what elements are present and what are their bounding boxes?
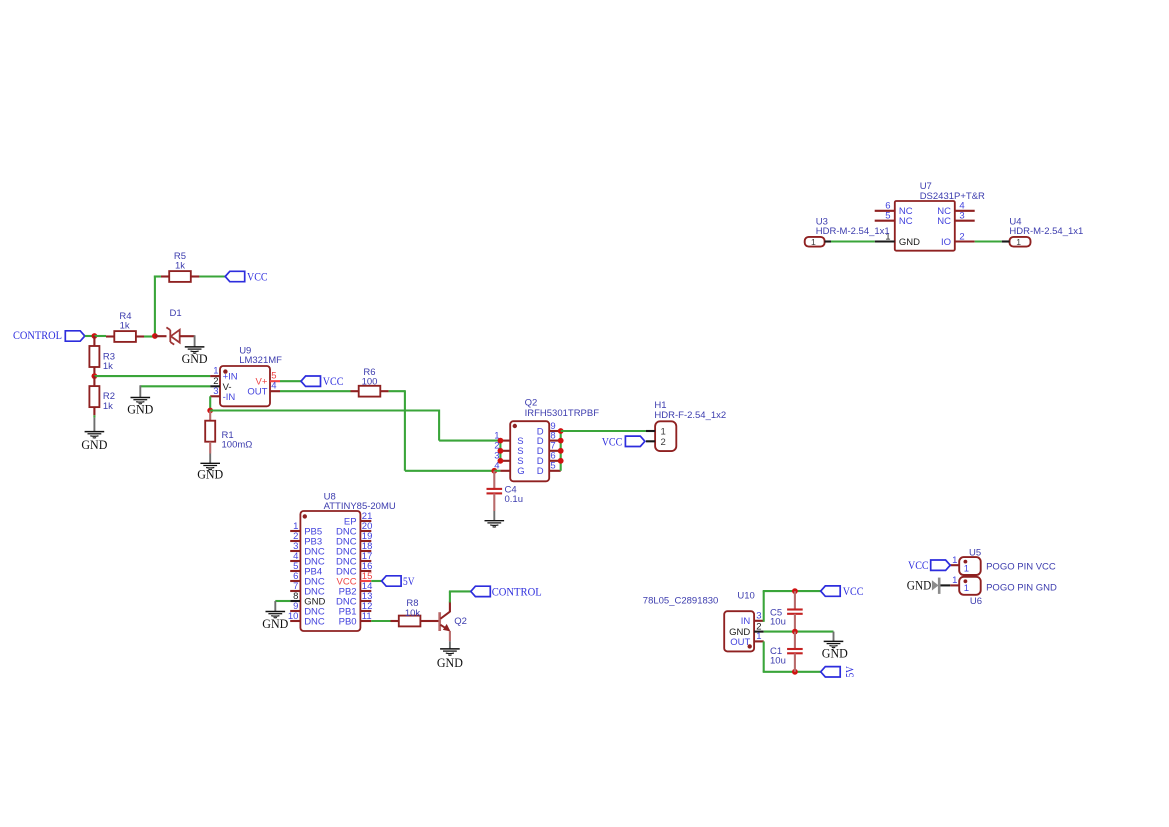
wire R6 to C4 node	[405, 470, 494, 472]
pin 12 stub U8 PB1	[360, 610, 371, 612]
svg-text:78L05_C2891830: 78L05_C2891830	[643, 596, 719, 607]
pin 11 stub U8 PB0	[360, 620, 371, 622]
pin 3 stub U8 DNC	[290, 550, 300, 552]
pin-1 marker U10	[748, 644, 752, 648]
svg-text:HDR-F-2.54_1x2: HDR-F-2.54_1x2	[654, 410, 726, 421]
capacitor C5 top lead	[794, 591, 796, 609]
pin stub R6 right	[380, 390, 388, 392]
junction Q2 S3	[498, 458, 504, 464]
pogo pin U6 body	[959, 577, 981, 595]
power flag VCC (U10)	[821, 586, 841, 596]
svg-text:GND: GND	[81, 438, 107, 452]
pin 20 stub U8 DNC	[360, 530, 371, 532]
svg-text:ATTINY85-20MU: ATTINY85-20MU	[324, 501, 396, 512]
node B junction	[152, 333, 158, 339]
junction GND rail C5	[792, 629, 798, 635]
svg-text:HDR-M-2.54_1x1: HDR-M-2.54_1x1	[816, 226, 890, 237]
node E junction (C4 top)	[491, 468, 497, 474]
pin 19 stub U8 DNC	[360, 540, 371, 542]
svg-text:VCC: VCC	[908, 558, 929, 572]
wire R4 to node B	[144, 335, 155, 337]
wire GND symbol to U6	[941, 584, 951, 586]
wire vertical R5 to node	[154, 276, 156, 337]
power flag VCC top	[225, 271, 245, 281]
ground symbol (R2)	[85, 432, 105, 438]
resistor R3	[89, 346, 99, 367]
svg-text:NC: NC	[937, 216, 951, 227]
svg-text:LM321MF: LM321MF	[239, 355, 282, 366]
wire U9 V+ to VCC flag	[280, 380, 301, 382]
emitter lead Q2	[449, 631, 451, 641]
pin 18 stub U8 DNC	[360, 550, 371, 552]
resistor R6	[359, 386, 381, 397]
wire 5V rail bottom	[763, 671, 821, 673]
pin stub node A to R3	[93, 336, 95, 346]
svg-text:POGO PIN VCC: POGO PIN VCC	[986, 562, 1056, 573]
svg-text:4: 4	[271, 381, 276, 392]
svg-text:1k: 1k	[103, 361, 113, 372]
wire Q2 drain bus vertical	[560, 431, 562, 471]
svg-text:5V: 5V	[403, 574, 415, 588]
pin stub U4	[1002, 240, 1010, 242]
svg-text:Q2: Q2	[454, 616, 467, 627]
wire U10 GND rail	[764, 631, 834, 633]
pin 6 stub U7 NC	[875, 210, 895, 212]
svg-text:U6: U6	[970, 596, 982, 607]
pin 1 stub Q2 S	[500, 440, 510, 442]
ground lead (U10)	[833, 632, 835, 642]
pin 2 stub U9 V-	[210, 385, 220, 387]
capacitor C4	[487, 489, 503, 494]
svg-text:3: 3	[213, 386, 218, 397]
capacitor C4 top lead	[493, 471, 495, 489]
pin 9 stub U8 DNC	[290, 610, 300, 612]
pin stub R2 bottom	[93, 407, 95, 416]
pin stub R1 bottom	[209, 442, 211, 454]
pin 2 stub Q2 S	[500, 450, 510, 452]
pin stub R3 bottom	[93, 367, 95, 376]
node A junction	[92, 333, 98, 339]
ground lead R1	[209, 454, 211, 464]
wire Q2 collector up	[449, 591, 451, 602]
svg-text:1k: 1k	[120, 321, 130, 332]
wire U3 to U7 GND	[831, 240, 875, 242]
ground symbol (R1)	[200, 463, 220, 469]
svg-text:IO: IO	[941, 237, 951, 248]
junction VCC rail C5	[792, 588, 798, 594]
wire R2 to ground	[93, 415, 95, 417]
ground symbol (D1)	[185, 347, 205, 353]
svg-text:0.1u: 0.1u	[505, 494, 524, 505]
pin stub R2 top	[93, 376, 95, 387]
pin 4 stub U9 OUT	[270, 390, 280, 392]
pogo pin U5 body	[959, 557, 981, 575]
pin 9 stub Q2 D	[549, 430, 561, 432]
wire U10 IN up	[763, 591, 765, 622]
pin-1 marker Q2	[513, 424, 517, 428]
pin stub R8 left	[391, 620, 399, 622]
capacitor C1	[787, 649, 803, 653]
transistor Q2 (BJT)	[440, 612, 451, 632]
pin 4 stub U8 DNC	[290, 560, 300, 562]
svg-text:3: 3	[756, 611, 761, 622]
power symbol GND (U6)	[932, 578, 941, 594]
ground lead (U8)	[274, 601, 276, 612]
wire Q2 source bus vertical	[499, 441, 501, 461]
svg-text:100mΩ: 100mΩ	[222, 440, 253, 451]
ground lead (Q2 emitter)	[449, 641, 451, 649]
svg-text:1: 1	[952, 555, 957, 566]
wire node C to U9 +IN	[94, 375, 210, 377]
pin 5 stub U8 PB4	[290, 570, 300, 572]
svg-text:DNC: DNC	[304, 616, 325, 627]
svg-text:GND: GND	[262, 617, 288, 631]
svg-text:U10: U10	[737, 591, 754, 602]
wire R8 to Q2 base	[428, 620, 439, 622]
capacitor C5 bottom lead	[794, 614, 796, 632]
pin 13 stub U8 DNC	[360, 600, 371, 602]
pin 3 stub U10 IN	[754, 620, 764, 622]
svg-text:1: 1	[1016, 237, 1021, 247]
svg-text:1k: 1k	[103, 401, 113, 412]
svg-text:2: 2	[661, 437, 666, 448]
pin 7 stub U8 DNC	[290, 590, 300, 592]
pin 5 stub U7 NC	[875, 220, 895, 222]
capacitor C5	[787, 610, 803, 614]
junction 5V rail C1	[792, 669, 798, 675]
svg-text:D1: D1	[170, 308, 182, 319]
wire U7 IO to U4	[975, 240, 1002, 242]
wire corner to Q2 source	[439, 440, 500, 442]
capacitor C4 bottom lead	[493, 493, 495, 511]
svg-text:1: 1	[964, 583, 969, 594]
power flag 5V (U8)	[382, 576, 402, 586]
svg-text:POGO PIN GND: POGO PIN GND	[986, 582, 1057, 593]
svg-text:PB0: PB0	[339, 616, 357, 627]
pin 16 stub U8 DNC	[360, 570, 371, 572]
ground lead D1	[194, 335, 196, 347]
power flag VCC (H1)	[625, 436, 645, 446]
resistor R8	[399, 616, 421, 627]
mcu U8 body	[300, 511, 360, 631]
pin stub R5 left	[161, 275, 169, 277]
pin 1 stub U9 +IN	[210, 375, 220, 377]
net flag CONTROL input	[65, 331, 85, 341]
pin 2 stub U8 PB3	[290, 540, 300, 542]
ground symbol (U8)	[266, 612, 286, 618]
svg-text:GND: GND	[127, 403, 153, 417]
svg-text:GND: GND	[907, 578, 932, 592]
svg-text:GND: GND	[899, 237, 920, 248]
pin 7 stub Q2 D	[549, 450, 561, 452]
wire R6 vertical down	[404, 390, 406, 471]
svg-text:CONTROL: CONTROL	[492, 584, 542, 598]
junction Q2 D7	[558, 448, 564, 454]
svg-text:OUT: OUT	[247, 387, 267, 398]
wire U10 OUT down	[763, 641, 765, 671]
ground symbol (U9 V-)	[131, 398, 151, 404]
pin 3 stub U7 NC	[955, 220, 975, 222]
pin 6 stub Q2 D	[549, 460, 561, 462]
svg-text:GND: GND	[197, 467, 223, 481]
pin 14 stub U8 PB2	[360, 590, 371, 592]
wire D1 anode to corner	[180, 335, 195, 337]
pin 3 stub U9 -IN	[210, 395, 220, 397]
node D junction	[207, 408, 213, 414]
svg-text:VCC: VCC	[323, 374, 344, 388]
wire R5 to VCC flag	[199, 275, 225, 277]
svg-text:VCC: VCC	[602, 434, 623, 448]
regulator U10 body	[724, 611, 754, 651]
pin 8 stub Q2 D	[549, 440, 561, 442]
wire R6 to corner	[389, 390, 405, 392]
pin 2 stub H1	[646, 440, 655, 442]
wire U8 PB0 to R8	[371, 620, 390, 622]
svg-text:100: 100	[362, 377, 378, 388]
svg-text:2: 2	[959, 231, 964, 242]
ground lead C4	[493, 511, 495, 521]
wire U9 OUT to R6	[280, 390, 351, 392]
svg-text:G: G	[517, 466, 524, 477]
junction Q2 S2	[498, 448, 504, 454]
pin stub R4 right	[136, 335, 144, 337]
svg-text:D: D	[537, 466, 544, 477]
pin 2 stub U10 GND	[754, 631, 764, 633]
connector U4 body	[1010, 237, 1031, 247]
svg-text:3: 3	[959, 211, 964, 222]
wire U9 V- to ground	[140, 385, 210, 387]
svg-text:1: 1	[811, 237, 816, 247]
svg-text:1: 1	[756, 631, 761, 642]
eeprom U7 body	[895, 201, 955, 251]
junction Q2 D8	[558, 438, 564, 444]
svg-text:-IN: -IN	[223, 392, 236, 403]
svg-text:5: 5	[550, 461, 555, 472]
svg-text:CONTROL: CONTROL	[13, 328, 62, 342]
pin stub R6 left	[351, 390, 359, 392]
pin 1 stub U8 PB5	[290, 530, 300, 532]
pin-1 marker U9	[223, 369, 227, 373]
resistor R5	[169, 271, 191, 282]
pin stub R5 right	[191, 275, 200, 277]
collector stub Q2	[449, 602, 451, 613]
wire U9 -IN down to node D	[209, 396, 211, 410]
pin 5 stub Q2 D	[549, 470, 561, 472]
svg-text:5V: 5V	[842, 666, 856, 678]
svg-text:DS2431P+T&R: DS2431P+T&R	[920, 191, 985, 202]
ground lead (U9 V-)	[139, 385, 141, 397]
mosfet Q2 body	[510, 421, 549, 481]
ground symbol (U10)	[824, 641, 844, 647]
wire U8 GND pin to corner	[275, 600, 290, 602]
capacitor C1 top lead	[794, 632, 796, 649]
svg-text:1: 1	[952, 575, 957, 586]
svg-text:10: 10	[288, 611, 299, 622]
pin 4 stub U7 NC	[955, 210, 975, 212]
power flag 5V (U10)	[821, 667, 841, 677]
resistor R1	[205, 421, 215, 442]
pin stub U3	[825, 240, 831, 242]
junction Q2 D6	[558, 458, 564, 464]
net flag CONTROL (Q2)	[471, 586, 491, 596]
svg-text:NC: NC	[899, 216, 913, 227]
pin 1 stub U10 OUT	[754, 640, 764, 642]
connector H1 body	[655, 421, 676, 451]
op-amp U9 body	[220, 366, 270, 406]
svg-text:U5: U5	[969, 547, 981, 558]
wire corner down (sense net)	[438, 410, 440, 441]
wire Q2 collector to CONTROL flag	[449, 590, 471, 592]
pin 10 stub U8 DNC	[290, 620, 300, 622]
ground symbol (C4)	[485, 521, 505, 527]
svg-text:GND: GND	[822, 646, 848, 660]
svg-text:1k: 1k	[175, 260, 185, 271]
pin stub R8 right	[420, 620, 428, 622]
node C junction	[92, 373, 98, 379]
svg-text:GND: GND	[437, 656, 463, 670]
wire node E to Q2 gate	[494, 470, 500, 472]
power flag VCC (U9)	[301, 376, 321, 386]
wire U8 VCC to 5V flag	[371, 580, 381, 582]
wire node D to corner 1	[210, 409, 439, 411]
power flag VCC (U5)	[931, 560, 951, 570]
zener diode D1	[166, 327, 179, 344]
wire VCC rail top	[763, 590, 821, 592]
pin 3 stub Q2 S	[500, 460, 510, 462]
junction Q2 S1	[498, 438, 504, 444]
pin 17 stub U8 DNC	[360, 560, 371, 562]
pin 6 stub U8 DNC	[290, 580, 300, 582]
svg-text:Q2: Q2	[525, 398, 538, 409]
ground symbol (Q2)	[440, 649, 460, 655]
pin 5 stub U9 V+ (red)	[270, 380, 280, 382]
pin 21 stub U8 EP	[360, 520, 371, 522]
pin-1 marker U6	[964, 579, 968, 583]
svg-text:11: 11	[362, 611, 372, 622]
capacitor C1 bottom lead	[794, 653, 796, 672]
svg-text:10k: 10k	[405, 608, 421, 619]
pin 2 stub U7 IO	[955, 240, 975, 242]
svg-text:OUT: OUT	[730, 637, 750, 648]
svg-text:VCC: VCC	[247, 270, 268, 284]
svg-text:10u: 10u	[770, 616, 786, 627]
pin 4 stub Q2 G	[500, 470, 510, 472]
pin 1 stub U5	[950, 564, 959, 566]
svg-text:GND: GND	[182, 352, 208, 366]
ground lead R2	[93, 418, 95, 432]
svg-text:IRFH5301TRPBF: IRFH5301TRPBF	[525, 408, 600, 419]
wire Q2 drain to H1	[561, 430, 646, 432]
resistor R4	[114, 331, 136, 342]
svg-text:5: 5	[885, 211, 890, 222]
svg-text:10u: 10u	[770, 656, 786, 667]
pin 8 stub U8 GND	[290, 600, 300, 602]
pin 1 stub U7 GND	[875, 240, 895, 242]
pin 1 stub H1	[646, 430, 655, 432]
pin stub R4 left	[106, 335, 114, 337]
svg-text:1: 1	[964, 563, 969, 574]
wire CONTROL to node A	[85, 335, 95, 337]
pin-1 marker U8	[303, 514, 307, 518]
resistor R2	[89, 386, 99, 407]
pin 15 stub U8 VCC	[360, 580, 371, 582]
wire R5 to corner	[154, 275, 161, 277]
svg-text:HDR-M-2.54_1x1: HDR-M-2.54_1x1	[1009, 226, 1083, 237]
svg-text:VCC: VCC	[843, 584, 864, 598]
pin stub R1 top	[209, 411, 211, 421]
svg-text:IN: IN	[741, 616, 751, 627]
pin 1 stub U6	[950, 584, 959, 586]
pin-1 marker U5	[964, 560, 968, 564]
wire node A to R4	[94, 335, 106, 337]
wire node B to D1	[155, 335, 167, 337]
junction Q2 D9	[558, 428, 564, 434]
connector U3 body	[805, 237, 825, 247]
